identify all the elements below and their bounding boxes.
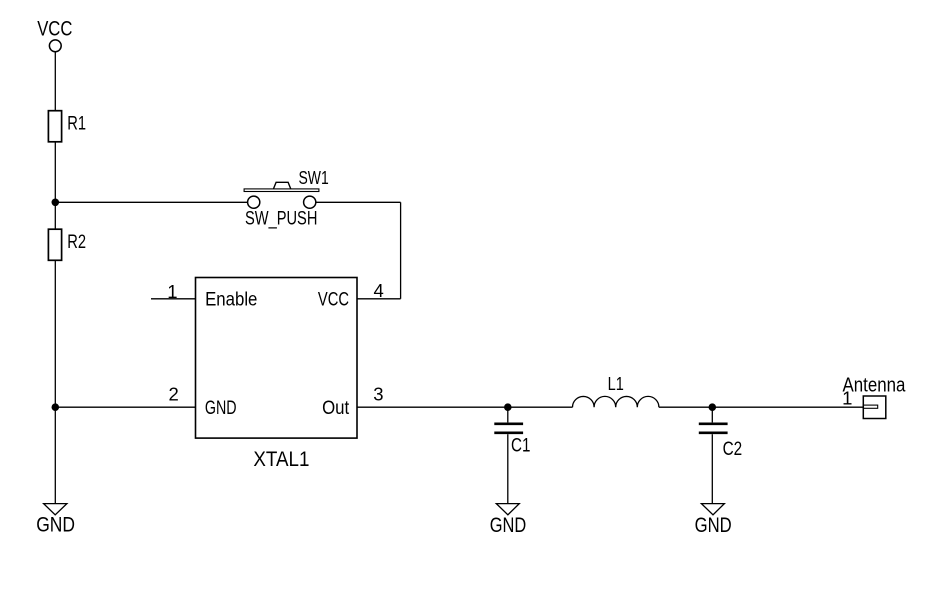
bar (244, 189, 319, 192)
capacitor C1 (494, 407, 530, 503)
pin 1 Enable stub (151, 281, 196, 302)
wire to XTAL1 pin 4 (357, 298, 401, 300)
left contact (248, 196, 260, 208)
power flag VCC (37, 18, 72, 52)
svg-text:C2: C2 (723, 439, 743, 460)
ground symbol under C2 (695, 504, 732, 537)
connector Antenna (842, 374, 906, 418)
right contact (304, 196, 316, 208)
inductor L1 (573, 374, 659, 407)
wire corner down to pin 4 (400, 202, 402, 298)
svg-text:Out: Out (322, 398, 350, 419)
button (273, 182, 290, 189)
capacitor C2 (699, 407, 742, 503)
resistor R2 (48, 229, 86, 260)
svg-text:VCC: VCC (37, 18, 72, 41)
svg-text:GND: GND (205, 398, 237, 419)
svg-text:L1: L1 (608, 374, 624, 394)
svg-text:VCC: VCC (318, 289, 349, 310)
svg-text:1: 1 (167, 281, 177, 302)
svg-text:R1: R1 (67, 113, 86, 134)
wire L1 to antenna (659, 406, 863, 408)
junction node at R1/R2/switch (52, 199, 60, 207)
svg-text:R2: R2 (67, 232, 86, 253)
wire junction to XTAL1 pin 2 (55, 406, 195, 408)
wire R1 to R2 (54, 142, 56, 229)
svg-text:Enable: Enable (205, 289, 257, 310)
wire switch right contact to corner (316, 201, 401, 203)
junction node at pin2 branch (52, 403, 60, 411)
svg-text:3: 3 (373, 383, 383, 404)
svg-text:GND: GND (695, 514, 732, 537)
switch SW1 (244, 168, 329, 229)
svg-text:2: 2 (168, 383, 178, 404)
svg-text:GND: GND (36, 514, 75, 537)
wire XTAL1 pin 3 to L1 (357, 406, 573, 408)
ground symbol left (36, 504, 75, 537)
wire junction to switch left contact (55, 201, 247, 203)
svg-text:C1: C1 (511, 435, 530, 456)
ground symbol under C1 (490, 504, 527, 538)
svg-text:SW1: SW1 (299, 168, 329, 188)
oscillator XTAL1 body (196, 278, 358, 472)
svg-text:1: 1 (842, 388, 852, 409)
resistor R1 (48, 111, 86, 142)
junction node at C2 (709, 403, 717, 411)
junction node at C1 (504, 403, 512, 411)
svg-text:SW_PUSH: SW_PUSH (245, 208, 317, 229)
svg-text:XTAL1: XTAL1 (253, 448, 309, 471)
wire VCC to R1 (54, 52, 56, 111)
svg-text:GND: GND (490, 514, 527, 537)
svg-text:4: 4 (373, 280, 383, 301)
wire R2 to GND (54, 260, 56, 503)
